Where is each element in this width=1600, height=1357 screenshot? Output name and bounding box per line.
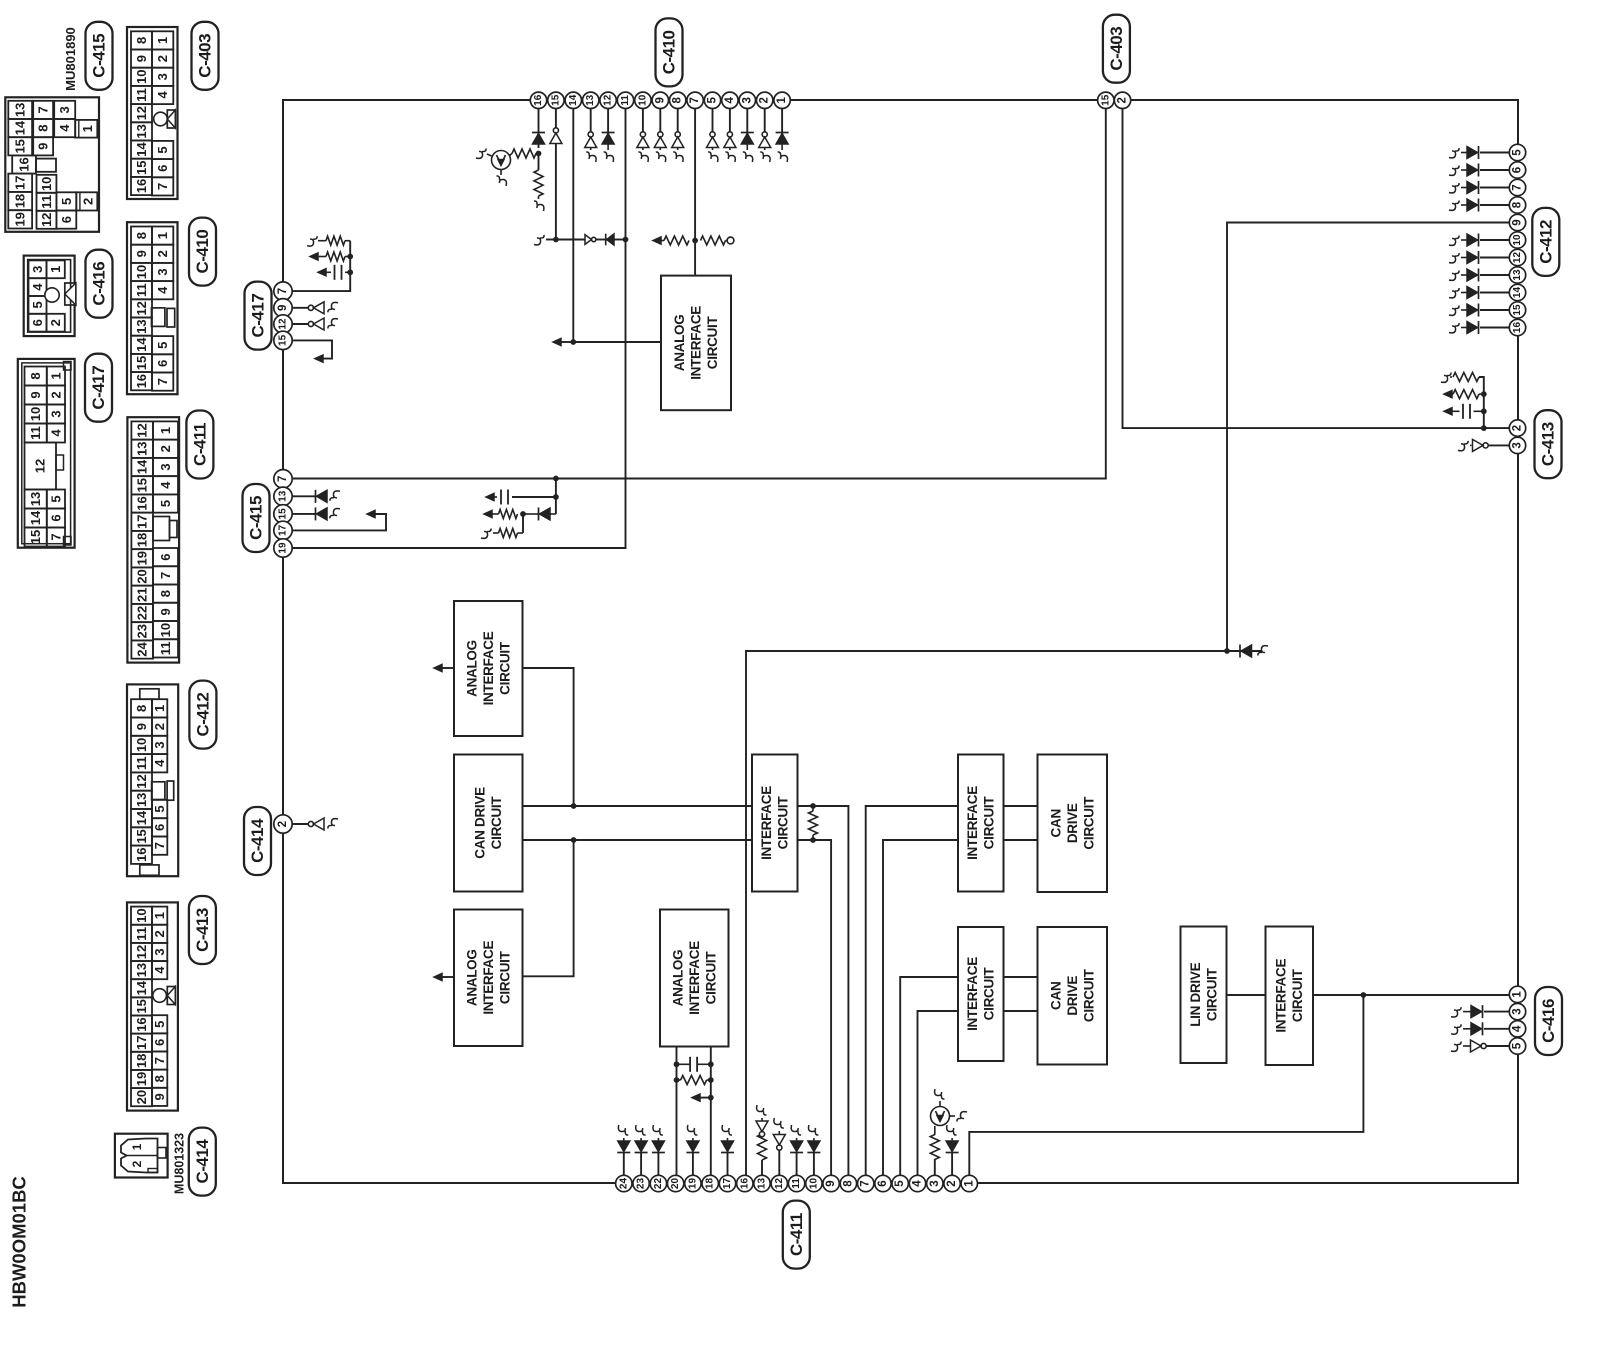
pin C-411:20: [667, 1175, 683, 1191]
connector C-416 key notch: [65, 283, 76, 305]
pin C-411:16: [737, 1175, 753, 1191]
pin C-410:3: [739, 92, 755, 108]
wire C-412 pin 6 diode: [1480, 169, 1510, 171]
capacitor C-L between outputs: [674, 1061, 680, 1067]
pin C-410:5: [704, 92, 720, 108]
block U6 interface circuit 1: [752, 755, 798, 892]
svg-text:4: 4: [57, 124, 72, 132]
svg-text:16: 16: [134, 848, 149, 862]
wire interface block 2 left to C-411 pin 7: [866, 806, 958, 1175]
pin C-411:17: [719, 1175, 735, 1191]
svg-text:2: 2: [946, 1180, 958, 1186]
svg-text:7: 7: [152, 842, 167, 849]
svg-text:4: 4: [724, 97, 736, 104]
svg-text:12: 12: [39, 213, 54, 227]
svg-text:14: 14: [135, 459, 150, 474]
pin C-416:3: [1509, 1003, 1525, 1019]
diode D-T2 open (points up): [762, 132, 767, 137]
svg-text:2: 2: [155, 55, 170, 62]
node D junction: [570, 339, 576, 345]
diode D-I2 filled (points left): [315, 507, 317, 520]
svg-text:ANALOG: ANALOG: [464, 640, 479, 697]
connector C-413 lock circle: [153, 989, 167, 1003]
svg-text:1: 1: [80, 125, 95, 132]
svg-text:5: 5: [894, 1180, 906, 1187]
svg-text:9: 9: [158, 608, 173, 615]
svg-text:11: 11: [158, 642, 173, 656]
wire C-414 pin 2 diode: [291, 823, 314, 825]
wire C-416 pin 5 diode: [1486, 1045, 1510, 1047]
diode D-Q13 filled (points right): [1478, 269, 1480, 282]
wire C-410 pin 1 stub: [781, 108, 783, 135]
pin C-412:16: [1509, 319, 1525, 335]
connector C-412 key tab top: [140, 689, 159, 699]
label badge C-412 (table): [189, 681, 216, 749]
connector C-413 pinout table: [127, 902, 178, 1110]
svg-text:3: 3: [152, 948, 167, 955]
svg-text:15: 15: [134, 829, 149, 843]
svg-text:C-412: C-412: [193, 693, 212, 737]
resistor R-V1 on pin 13: [758, 1134, 767, 1160]
svg-text:7: 7: [36, 106, 51, 113]
pin C-412:14: [1509, 284, 1525, 300]
connector C-410 key notch: [152, 308, 165, 327]
svg-text:15: 15: [135, 478, 150, 492]
wire C-412 pin 7 diode: [1480, 187, 1510, 189]
svg-text:13: 13: [134, 124, 149, 138]
svg-text:5: 5: [158, 500, 173, 507]
svg-text:CIRCUIT: CIRCUIT: [982, 796, 997, 850]
connector C-415 key notch: [36, 159, 56, 172]
wire C-412 pin 16 diode: [1480, 327, 1510, 329]
svg-text:CIRCUIT: CIRCUIT: [497, 950, 512, 1004]
wire analog block 4 output to node K2: [523, 840, 574, 976]
diode D-T10 open (points up): [640, 132, 645, 137]
svg-text:10: 10: [808, 1178, 819, 1190]
svg-text:12: 12: [134, 945, 149, 959]
block U9 interface circuit 3: [958, 927, 1004, 1061]
svg-text:18: 18: [13, 194, 28, 208]
arrow branch below R-L: [708, 1095, 714, 1101]
hook above D-U23: [636, 1125, 646, 1135]
svg-text:14: 14: [568, 94, 579, 106]
pin C-416:5: [1509, 1038, 1525, 1054]
hook below D-T1: [778, 152, 788, 162]
svg-text:C-403: C-403: [196, 34, 215, 78]
svg-text:8: 8: [134, 37, 149, 44]
resistor R-F2 (left at y=533): [518, 532, 524, 534]
wire node D to analog interface block 1: [573, 341, 661, 343]
wire C-410 pin 4 stub: [729, 108, 731, 135]
diode D-T4 open (points up): [727, 132, 732, 137]
svg-text:1: 1: [1512, 991, 1524, 998]
svg-text:CIRCUIT: CIRCUIT: [1290, 968, 1305, 1022]
pin C-410:12: [600, 92, 616, 108]
svg-text:MU801890: MU801890: [63, 27, 78, 91]
svg-text:6: 6: [155, 165, 170, 172]
pin C-417:12: [274, 315, 292, 333]
wire node M to C-411 pin 1: [969, 995, 1363, 1175]
svg-text:C-416: C-416: [90, 262, 109, 306]
connector C-403 pinout table: [127, 27, 178, 199]
svg-text:5: 5: [1512, 1042, 1524, 1049]
svg-text:13: 13: [134, 319, 149, 333]
label badge C-411 (bottom pins): [783, 1201, 810, 1269]
svg-text:9: 9: [134, 723, 149, 730]
diode D-Q7 filled (points right): [1478, 181, 1480, 194]
svg-text:9: 9: [28, 391, 43, 398]
svg-text:1: 1: [48, 372, 63, 379]
svg-text:3: 3: [30, 266, 45, 273]
svg-text:C-415: C-415: [90, 34, 109, 78]
hook below D-T4: [725, 152, 735, 162]
diode D-U19 filled (points down): [686, 1152, 699, 1154]
node E junction on pin7 line: [692, 238, 698, 244]
svg-text:5: 5: [1512, 149, 1524, 156]
wire C-410 pin 10 stub: [642, 108, 644, 135]
capacitor C-H: [347, 269, 353, 275]
svg-text:2: 2: [1512, 425, 1524, 431]
wire C-417 pin 9 diode: [291, 307, 314, 309]
diode D-U17 filled (points down): [721, 1152, 734, 1154]
node F1 junction at y=239.5: [553, 237, 559, 243]
svg-text:C-413: C-413: [1539, 422, 1558, 466]
svg-text:8: 8: [134, 232, 149, 239]
wire interface block 3 to CAN drive block 3 (rail 1): [1004, 976, 1038, 978]
diode D-Q12 filled (points right): [1478, 251, 1480, 264]
wire C-410 pin 14 down to node D: [572, 108, 574, 342]
svg-text:2: 2: [1117, 97, 1129, 103]
svg-text:9: 9: [277, 305, 289, 311]
svg-text:4: 4: [30, 283, 45, 291]
pin C-410:4: [722, 92, 738, 108]
label badge C-417 (left pins): [245, 282, 272, 350]
svg-text:7: 7: [277, 476, 289, 482]
pin C-410:2: [757, 92, 773, 108]
diode D-netC on net C: [1239, 645, 1241, 658]
svg-text:1: 1: [158, 427, 173, 434]
svg-text:ANALOG: ANALOG: [670, 950, 685, 1007]
wire C-410 pin 3 stub: [746, 108, 748, 135]
svg-text:8: 8: [36, 124, 51, 131]
hook above D-U22: [653, 1125, 663, 1135]
wire interface block 2 to CAN drive block 2 (rail 2): [1004, 839, 1038, 841]
svg-text:15: 15: [1100, 94, 1111, 106]
svg-text:CIRCUIT: CIRCUIT: [982, 967, 997, 1021]
pin C-411:11: [788, 1175, 804, 1191]
label badge C-413 (right pins): [1535, 410, 1562, 478]
svg-text:17: 17: [722, 1178, 733, 1190]
diode D-U23 filled (points down): [635, 1152, 648, 1154]
hook below D-T5: [708, 152, 718, 162]
wire interface block 3 to CAN drive block 3 (rail 2): [1004, 1010, 1038, 1012]
pin C-412:13: [1509, 267, 1525, 283]
pin C-411:8: [840, 1175, 856, 1191]
connector C-403 key notch: [167, 110, 175, 128]
svg-text:13: 13: [1512, 269, 1523, 281]
label badge C-416 (table): [86, 250, 113, 318]
pin C-413:2: [1509, 420, 1525, 436]
resistor R-H1: [345, 240, 350, 242]
pin C-411:6: [875, 1175, 891, 1191]
svg-text:4: 4: [152, 966, 167, 974]
svg-text:16: 16: [134, 374, 149, 388]
svg-text:15: 15: [13, 139, 28, 153]
svg-text:CAN DRIVE: CAN DRIVE: [473, 787, 488, 859]
svg-text:3: 3: [1512, 442, 1524, 448]
svg-text:17: 17: [135, 515, 150, 529]
wire C-417 pin 15 L-branch: [291, 340, 332, 358]
svg-text:11: 11: [28, 426, 43, 440]
svg-text:3: 3: [1512, 1008, 1524, 1014]
svg-text:7: 7: [48, 533, 63, 540]
pin C-410:8: [670, 92, 686, 108]
wire C-415 pin 15 diode: [291, 513, 316, 515]
svg-text:9: 9: [36, 143, 51, 150]
svg-text:CIRCUIT: CIRCUIT: [776, 796, 791, 850]
pin C-411:22: [650, 1175, 666, 1191]
svg-text:9: 9: [825, 1180, 837, 1186]
svg-text:14: 14: [134, 810, 149, 825]
svg-text:12: 12: [774, 1178, 785, 1190]
svg-text:23: 23: [135, 624, 150, 638]
pin C-411:10: [806, 1175, 822, 1191]
connector C-417 key tabs: [64, 362, 72, 371]
svg-text:15: 15: [1512, 304, 1523, 316]
svg-text:C-403: C-403: [1107, 27, 1126, 71]
block U8 CAN drive circuit 2: [1038, 755, 1108, 893]
block U3 CAN drive circuit 1: [454, 755, 523, 892]
block U10 CAN drive circuit 3: [1038, 927, 1108, 1065]
pin C-411:7: [858, 1175, 874, 1191]
hook below D-T2: [760, 152, 770, 162]
svg-text:9: 9: [1512, 219, 1524, 225]
svg-text:INTERFACE: INTERFACE: [481, 631, 496, 705]
connector C-417 pin 12 cell: [25, 443, 57, 490]
pin C-410:16: [530, 92, 546, 108]
hook above D-U19: [687, 1125, 697, 1135]
svg-text:19: 19: [135, 551, 150, 565]
pin C-412:15: [1509, 302, 1525, 318]
hook below D-T9: [656, 152, 666, 162]
wire C-412 pin 10 diode: [1480, 239, 1510, 241]
diode D-T13 open (points up): [588, 132, 593, 137]
svg-text:CAN: CAN: [1048, 982, 1063, 1010]
svg-text:17: 17: [134, 1035, 149, 1049]
svg-text:12: 12: [278, 318, 289, 330]
wire C-411 pin 23 stub: [640, 1152, 642, 1175]
pin C-411:3: [927, 1175, 943, 1191]
svg-text:21: 21: [135, 588, 150, 602]
svg-text:2: 2: [81, 198, 96, 205]
wire C-412 pin 15 diode: [1480, 309, 1510, 311]
svg-text:12: 12: [1512, 252, 1523, 264]
svg-text:12: 12: [134, 106, 149, 120]
svg-text:3: 3: [48, 410, 63, 417]
svg-text:13: 13: [135, 442, 150, 456]
wire C-413 pin 3 diode: [1488, 444, 1510, 446]
wire C-412 pin 9 down-left (net C): [1227, 223, 1510, 652]
svg-text:1: 1: [48, 266, 63, 273]
wire C-411 pin 19 stub: [692, 1152, 694, 1175]
connector C-411 key notch: [153, 517, 170, 541]
svg-text:5: 5: [48, 495, 63, 502]
block U11 LIN drive circuit: [1181, 927, 1227, 1064]
pin C-412:8: [1509, 197, 1525, 213]
diode D-F3 filled (points left): [605, 234, 607, 246]
svg-text:20: 20: [134, 1090, 149, 1104]
diode D-G1 filled up (on pin 16 line): [532, 132, 545, 134]
svg-text:13: 13: [28, 492, 43, 506]
pin C-415:15: [274, 505, 292, 523]
pin C-410:1: [774, 92, 790, 108]
wire C-415 pin 13 diode: [291, 495, 316, 497]
svg-text:11: 11: [134, 756, 149, 770]
diode D-T9 open (points up): [658, 132, 663, 137]
svg-text:INTERFACE: INTERFACE: [1274, 959, 1289, 1033]
svg-text:CIRCUIT: CIRCUIT: [1204, 967, 1219, 1021]
wire C-410 pin 2 stub: [764, 108, 766, 135]
label badge C-410 (table): [189, 218, 216, 286]
pin C-412:10: [1509, 232, 1525, 248]
node K2 junction: [571, 837, 577, 843]
diode D-T5 open (points up): [710, 132, 715, 137]
diode D-U24 filled (points down): [617, 1152, 630, 1154]
pin C-403:15: [1098, 92, 1114, 108]
svg-text:5: 5: [155, 146, 170, 153]
svg-text:4: 4: [155, 91, 170, 99]
diode D-H2 open (points left): [308, 321, 313, 326]
diode D-U2 filled (points down): [946, 1152, 959, 1154]
resistor R-F1 (left at y=514): [499, 510, 518, 519]
pin C-414:2: [274, 815, 292, 833]
svg-text:2: 2: [277, 821, 289, 827]
svg-text:INTERFACE: INTERFACE: [481, 941, 496, 1015]
hook above D-U17: [722, 1125, 732, 1135]
svg-text:1: 1: [152, 912, 167, 919]
svg-text:5: 5: [152, 1021, 167, 1028]
svg-text:10: 10: [39, 177, 54, 191]
diode D-Q5 filled (points right): [1478, 146, 1480, 159]
svg-text:C-416: C-416: [1539, 999, 1558, 1043]
block U1 analog interface circuit 1: [661, 276, 731, 411]
diode D-Q8 filled (points right): [1478, 199, 1480, 212]
wire net C horizontal to C-411 pin 16: [746, 651, 1262, 1175]
svg-text:16: 16: [134, 1017, 149, 1031]
diode D-I1 filled (points left): [315, 490, 317, 503]
pin C-410:15: [548, 92, 564, 108]
svg-text:22: 22: [653, 1178, 664, 1190]
svg-text:6: 6: [877, 1180, 889, 1186]
pin C-411:18: [702, 1175, 718, 1191]
hook below D-T10: [638, 152, 648, 162]
wire interface block 1 right to C-411 pin 8: [798, 806, 849, 1175]
svg-text:4: 4: [48, 429, 63, 437]
connector C-417 pinout table: [18, 359, 75, 548]
pin C-410:10: [635, 92, 651, 108]
wire C-410 pin 12 stub: [607, 108, 609, 135]
wire interface block 2 left to C-411 pin 6: [883, 840, 958, 1175]
pin C-413:3: [1509, 437, 1525, 453]
svg-text:CIRCUIT: CIRCUIT: [703, 951, 718, 1005]
wire C-403 pin 15 to C-415 pin 7 (net A): [291, 108, 1106, 479]
svg-text:16: 16: [134, 179, 149, 193]
svg-text:10: 10: [158, 623, 173, 637]
wire C-411 pin 12 stub: [778, 1148, 780, 1175]
wire C-410 pin 11 to C-415 pin 19: [291, 108, 626, 548]
wire CAN drive block output rail y=840: [523, 839, 753, 841]
svg-text:10: 10: [1512, 234, 1523, 246]
pin C-412:6: [1509, 162, 1525, 178]
svg-text:4: 4: [152, 759, 167, 767]
svg-text:19: 19: [13, 212, 28, 226]
svg-text:7: 7: [860, 1180, 872, 1186]
diode D-T8 open (points up): [675, 132, 680, 137]
svg-text:4: 4: [1512, 1025, 1524, 1032]
svg-text:C-414: C-414: [193, 1139, 212, 1184]
svg-text:INTERFACE: INTERFACE: [759, 786, 774, 860]
node K1 junction: [571, 803, 577, 809]
svg-text:10: 10: [134, 70, 149, 84]
transistor Q2: [934, 1126, 936, 1135]
block U5 analog interface circuit 4: [660, 910, 729, 1047]
diode D-V2 open (points down, circle): [777, 1145, 782, 1150]
connector C-414 key tabs: [158, 1148, 167, 1159]
diode D-V1 open (points down, circle): [759, 1132, 764, 1137]
svg-text:11: 11: [620, 95, 631, 106]
svg-text:7: 7: [155, 378, 170, 385]
svg-text:15: 15: [28, 530, 43, 544]
hook below D-T13: [586, 152, 596, 162]
svg-text:9: 9: [654, 97, 666, 103]
hook left of Q1: [487, 154, 492, 156]
svg-text:9: 9: [134, 55, 149, 62]
hook below D-T8: [673, 152, 683, 162]
svg-text:3: 3: [152, 741, 167, 748]
svg-text:8: 8: [842, 1180, 854, 1187]
resistor R-W on pin 3: [930, 1135, 939, 1160]
wire C-416 pin 4 diode: [1484, 1028, 1510, 1030]
diode D-T1 filled (points up): [776, 132, 789, 134]
diode D-P1 filled (points right): [1482, 1005, 1484, 1018]
node F5 junction at (523,514): [520, 511, 526, 517]
svg-text:CAN: CAN: [1048, 809, 1063, 837]
connector C-412 key tab bottom: [140, 865, 159, 875]
wire C-410 pin 16 vertical: [538, 108, 540, 148]
svg-text:16: 16: [1512, 322, 1523, 334]
capacitor C-N: [1444, 408, 1452, 415]
wire node F5 down to y=533: [522, 514, 524, 533]
svg-text:3: 3: [155, 268, 170, 275]
wire analog block 4 left arrow: [442, 976, 454, 978]
svg-text:14: 14: [134, 980, 149, 995]
Q2 collector hook above: [939, 1101, 941, 1107]
svg-text:C-410: C-410: [660, 30, 679, 74]
svg-text:10: 10: [134, 908, 149, 922]
wire C-403 pin 2 to C-413 pin 2 (net B): [1123, 108, 1511, 428]
wire analog block 5 output to C-411 pin 18: [710, 1047, 712, 1176]
capacitor C-F (branch left at y=497): [512, 496, 556, 498]
svg-text:19: 19: [278, 542, 289, 554]
diode D-Q6 filled (points right): [1478, 164, 1480, 177]
svg-text:C-410: C-410: [193, 230, 212, 274]
svg-text:4: 4: [912, 1180, 924, 1187]
svg-text:11: 11: [134, 283, 149, 297]
resistor R-E2 (right of node E): [701, 236, 726, 245]
svg-text:1: 1: [130, 1143, 144, 1150]
svg-text:7: 7: [152, 1057, 167, 1064]
svg-text:2: 2: [48, 319, 63, 326]
